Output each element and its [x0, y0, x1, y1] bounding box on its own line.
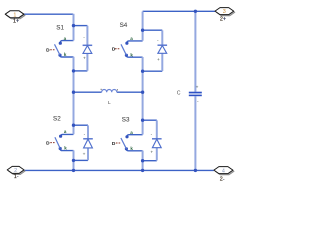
svg-text:D: D	[46, 48, 50, 54]
inductor polarity marks	[101, 89, 102, 90]
diode of S3	[150, 132, 161, 155]
svg-text:+: +	[150, 150, 153, 155]
wire S2 diode vertical	[87, 125, 89, 160]
diode of S1	[83, 36, 93, 62]
wire top rail to port 2+	[143, 10, 216, 12]
svg-text:4: 4	[222, 168, 225, 174]
node S1 top	[72, 24, 75, 27]
switch S1	[46, 36, 67, 57]
capacitor C	[189, 86, 202, 105]
wire S1 diode top	[74, 25, 88, 27]
diode of S2	[83, 132, 93, 157]
wire left leg S2 bottom vertical	[73, 150, 75, 170]
svg-text:D: D	[112, 47, 116, 53]
svg-text:S2: S2	[53, 115, 61, 122]
wire bottom rail	[24, 169, 214, 171]
wire S3 diode bottom	[143, 160, 157, 162]
wire right leg S4 bottom vertical	[142, 57, 144, 135]
node S2 top	[72, 124, 75, 127]
port 2+ (connection port 3)	[215, 8, 235, 23]
svg-text:S1: S1	[56, 25, 64, 32]
port 1+ (connection port 1)	[5, 11, 25, 25]
svg-text:S4: S4	[120, 22, 128, 29]
diode of S4	[157, 39, 167, 63]
switch S3	[112, 130, 133, 151]
node S4 top	[141, 29, 144, 32]
node S4 bottom	[141, 70, 144, 73]
wire left leg top vertical	[73, 14, 75, 41]
inductor L coil	[102, 90, 117, 93]
switch S4	[112, 36, 133, 57]
port 2- (connection port 4)	[214, 167, 234, 183]
svg-text:L: L	[108, 100, 111, 106]
wire right leg S3 bottom vertical	[142, 151, 144, 171]
svg-text:2+: 2+	[220, 17, 226, 23]
svg-text:3: 3	[223, 9, 226, 15]
node top rail capacitor tap	[194, 10, 197, 13]
wire S2 a-lead	[61, 134, 74, 136]
switch S2	[46, 129, 67, 150]
node bottom rail capacitor tap	[194, 169, 197, 172]
node bottom rail left	[72, 169, 75, 172]
wire S3 diode vertical	[156, 120, 158, 160]
svg-text:1-: 1-	[14, 174, 19, 180]
wire right leg top vertical	[142, 12, 144, 41]
node middle rail right	[141, 91, 144, 94]
node S2 bottom	[72, 159, 75, 162]
wire S4 diode top	[143, 29, 163, 31]
node bottom rail center	[141, 169, 144, 172]
node S3 top	[141, 119, 144, 122]
svg-text:D: D	[112, 141, 116, 147]
svg-text:D: D	[46, 141, 50, 147]
wire S1 diode vertical	[86, 26, 88, 71]
wire S3 k-lead	[126, 149, 142, 151]
svg-text:1: 1	[13, 12, 16, 18]
node middle rail left	[72, 91, 75, 94]
wire capacitor branch vertical	[194, 12, 196, 171]
wire S2 diode bottom	[74, 159, 89, 161]
wire S3 diode top	[143, 119, 157, 121]
wire port 1+ feed	[24, 13, 73, 15]
wire S1 k-lead	[60, 56, 74, 57]
svg-text:2-: 2-	[220, 176, 225, 182]
wire S4 a-lead	[127, 41, 143, 43]
svg-text:+: +	[83, 57, 86, 62]
svg-text:1+: 1+	[13, 19, 19, 25]
wire S4 diode bottom	[143, 70, 163, 72]
svg-text:C: C	[177, 91, 181, 97]
wire S1 a-lead	[60, 41, 73, 43]
svg-text:+: +	[83, 153, 86, 158]
svg-text:S3: S3	[122, 117, 130, 124]
svg-text:+: +	[157, 58, 160, 63]
wire S4 k-lead	[126, 56, 142, 58]
wire S3 a-lead	[127, 135, 143, 137]
port 1- (connection port 2)	[7, 166, 25, 180]
wire middle rail right	[117, 91, 143, 93]
wire S2 diode top	[74, 124, 89, 126]
node S3 bottom	[141, 159, 144, 162]
svg-text:+: +	[196, 86, 199, 91]
wire S1 diode bottom	[74, 70, 88, 72]
wire middle rail left	[74, 91, 102, 93]
wire left leg S1 bottom vertical	[73, 57, 75, 134]
wire S2 k-lead	[60, 149, 73, 151]
node S1 bottom	[72, 69, 75, 72]
wire S4 diode vertical	[161, 30, 163, 71]
